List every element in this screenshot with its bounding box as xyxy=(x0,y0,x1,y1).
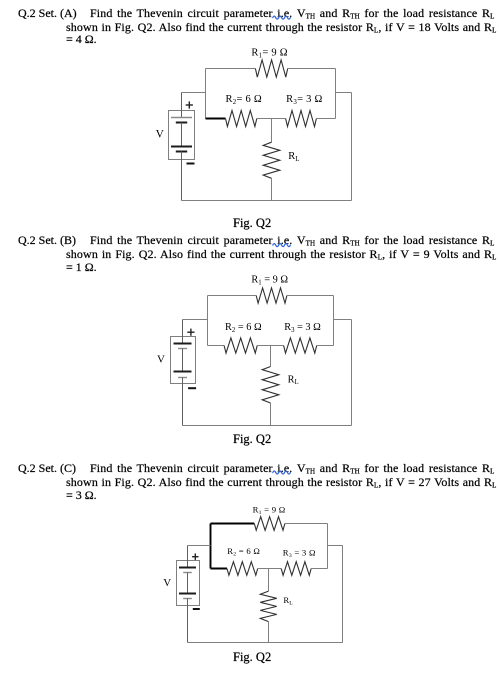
wire: RL top stub (C) xyxy=(268,569,270,592)
svg-text:R2= 6 Ω: R2= 6 Ω xyxy=(226,94,262,106)
resistor R2 (C) xyxy=(227,562,258,576)
resistor R1 (B) xyxy=(256,288,287,303)
wire: top branch right segment (C) xyxy=(285,523,328,525)
circuit diagram for Set A xyxy=(156,48,352,201)
resistor RL (A) xyxy=(263,142,280,178)
wire: left inner vertical (B) xyxy=(207,296,209,346)
wire: RL top stub (B) xyxy=(270,346,272,367)
svg-text:R3 = 3 Ω: R3 = 3 Ω xyxy=(284,322,321,334)
wire: battery inner connector (B) xyxy=(182,349,184,372)
svg-text:V: V xyxy=(163,577,171,589)
resistor R1 (C) xyxy=(254,517,285,531)
battery plate short top (B) xyxy=(178,348,187,350)
wire: battery bottom lead (B) xyxy=(182,378,184,426)
svg-text:RL: RL xyxy=(288,374,299,386)
wire: top branch left segment (A) xyxy=(206,68,256,70)
wire: right outer vertical (B) xyxy=(351,320,353,426)
wire: middle branch right segment (C) xyxy=(311,568,327,570)
resistor R2 (B) xyxy=(224,338,257,353)
battery V (B): enclosure box xyxy=(171,337,196,384)
svg-text:V: V xyxy=(157,353,165,365)
wire: middle branch R2-to-node segment (B) xyxy=(257,345,270,347)
question text line 3 (C) xyxy=(66,489,97,502)
question text line 2 (B) xyxy=(66,248,497,265)
battery plate long top (A) xyxy=(171,117,192,119)
battery plate short top (A) xyxy=(176,122,187,124)
resistor RL (C) xyxy=(260,591,276,622)
wire: battery bottom lead (A) xyxy=(181,152,183,201)
question text line 2 (C) xyxy=(66,476,497,493)
wire: RL bottom stub (C) xyxy=(268,622,270,643)
wire: middle branch left segment (A) xyxy=(206,118,226,120)
node: junction of R2, R3 and RL (C) xyxy=(269,568,282,570)
wire: right outer vertical (C) xyxy=(342,546,344,643)
wire: right inner vertical (C) xyxy=(327,524,329,569)
resistor R3 (A) xyxy=(286,111,317,127)
battery plate short bottom (C) xyxy=(183,598,192,600)
battery V (C): enclosure box xyxy=(177,561,200,606)
wire: middle branch right segment (B) xyxy=(317,345,334,347)
wire: RL bottom stub (B) xyxy=(270,403,272,426)
wire: battery top tap horizontal (B) xyxy=(183,319,208,321)
wire: top branch left segment (B) xyxy=(208,295,257,297)
wire: middle branch R2-to-node segment (A) xyxy=(257,118,272,120)
wire: right tap horizontal (B) xyxy=(334,319,352,321)
svg-text:RL: RL xyxy=(288,151,299,163)
figure caption Fig. Q2 (B) xyxy=(233,432,271,447)
figure caption Fig. Q2 (A) xyxy=(233,216,271,231)
battery plate short top (C) xyxy=(183,572,192,574)
figure caption Fig. Q2 (C) xyxy=(233,650,271,665)
label battery minus terminal (B) xyxy=(188,387,196,389)
wire: battery inner connector (A) xyxy=(181,123,183,147)
svg-text:R1= 9 Ω: R1= 9 Ω xyxy=(251,48,287,60)
wire: RL top stub (A) xyxy=(271,119,273,143)
wire: battery top lead (C) xyxy=(187,546,189,568)
svg-text:R2 = 6 Ω: R2 = 6 Ω xyxy=(227,546,260,558)
resistor R1 (A) xyxy=(255,60,287,77)
wire: bottom return (C) xyxy=(188,642,343,644)
wire: right outer vertical (A) xyxy=(351,93,353,201)
wire: right inner vertical (A) xyxy=(335,69,337,119)
wire: bottom return (B) xyxy=(183,425,352,427)
spellcheck squiggle under i.e. (A) xyxy=(273,16,291,19)
wire: middle branch left segment (C) xyxy=(211,568,228,570)
svg-text:R1 = 9 Ω: R1 = 9 Ω xyxy=(251,275,288,287)
resistor R3 (C) xyxy=(281,562,311,576)
wire: middle branch left segment (B) xyxy=(208,345,225,347)
question label Q.2 Set. (B) xyxy=(18,234,76,247)
wire: bottom return (A) xyxy=(182,200,352,202)
question text line 1 (A) xyxy=(90,7,495,24)
svg-text:R3 = 3 Ω: R3 = 3 Ω xyxy=(283,548,316,560)
wire: top branch right segment (A) xyxy=(288,68,336,70)
wire: middle branch right segment (A) xyxy=(316,118,335,120)
spellcheck squiggle under i.e. (B) xyxy=(273,244,291,247)
label battery plus terminal (C) xyxy=(192,554,198,560)
svg-text:R1 = 9 Ω: R1 = 9 Ω xyxy=(253,504,286,516)
battery plate long top (C) xyxy=(179,567,196,569)
resistor R3 (B) xyxy=(284,338,317,353)
wire: battery inner connector (C) xyxy=(187,573,189,594)
wire: left inner vertical (A) xyxy=(205,69,207,119)
wire: battery bottom lead (C) xyxy=(187,599,189,643)
question text line 1 (B) xyxy=(90,234,495,251)
battery plate long top (B) xyxy=(174,343,192,345)
wire: battery top lead (B) xyxy=(182,320,184,344)
battery plate short bottom (B) xyxy=(178,377,187,379)
label battery minus terminal (C) xyxy=(193,608,200,610)
wire: left inner vertical (C) xyxy=(210,524,212,569)
wire: top branch left segment (C) xyxy=(211,523,255,525)
svg-text:V: V xyxy=(156,129,165,141)
resistor RL (B) xyxy=(262,367,279,404)
wire: right tap horizontal (C) xyxy=(328,545,343,547)
question label Q.2 Set. (C) xyxy=(18,462,76,475)
node: junction of R2, R3 and RL (B) xyxy=(271,345,284,347)
spellcheck squiggle under i.e. (C) xyxy=(273,471,291,474)
wire: RL bottom stub (A) xyxy=(271,178,273,200)
label battery plus terminal (B) xyxy=(187,329,194,336)
svg-text:R3= 3 Ω: R3= 3 Ω xyxy=(286,94,322,106)
svg-text:RL: RL xyxy=(283,595,293,607)
battery plate long bottom (C) xyxy=(179,593,196,595)
question text line 1 (C) xyxy=(90,462,495,479)
circuit diagram for Set B xyxy=(157,275,352,426)
node: junction of R2, R3 and RL (A) xyxy=(272,118,286,120)
battery plate short bottom (A) xyxy=(176,151,187,153)
wire: right tap horizontal (A) xyxy=(336,92,352,94)
wire: battery top tap horizontal (A) xyxy=(182,92,206,94)
battery plate long bottom (A) xyxy=(171,146,192,148)
circuit diagram for Set C xyxy=(163,504,342,642)
label battery plus terminal (A) xyxy=(186,101,193,108)
question text line 2 (A) xyxy=(66,21,497,38)
battery V (A): enclosure box xyxy=(169,111,195,160)
wire: middle branch R2-to-node segment (C) xyxy=(258,568,269,570)
wire: battery top tap horizontal (C) xyxy=(188,545,211,547)
resistor R2 (A) xyxy=(226,111,257,127)
battery plate long bottom (B) xyxy=(174,371,192,373)
question text line 3 (A) xyxy=(66,33,97,46)
svg-text:R2 = 6 Ω: R2 = 6 Ω xyxy=(225,322,262,334)
wire: right inner vertical (B) xyxy=(333,296,335,346)
question text line 3 (B) xyxy=(66,261,97,274)
wire: top branch right segment (B) xyxy=(287,295,334,297)
question label Q.2 Set. (A) xyxy=(18,7,77,20)
label battery minus terminal (A) xyxy=(187,163,195,165)
wire: battery top lead (A) xyxy=(181,93,183,118)
